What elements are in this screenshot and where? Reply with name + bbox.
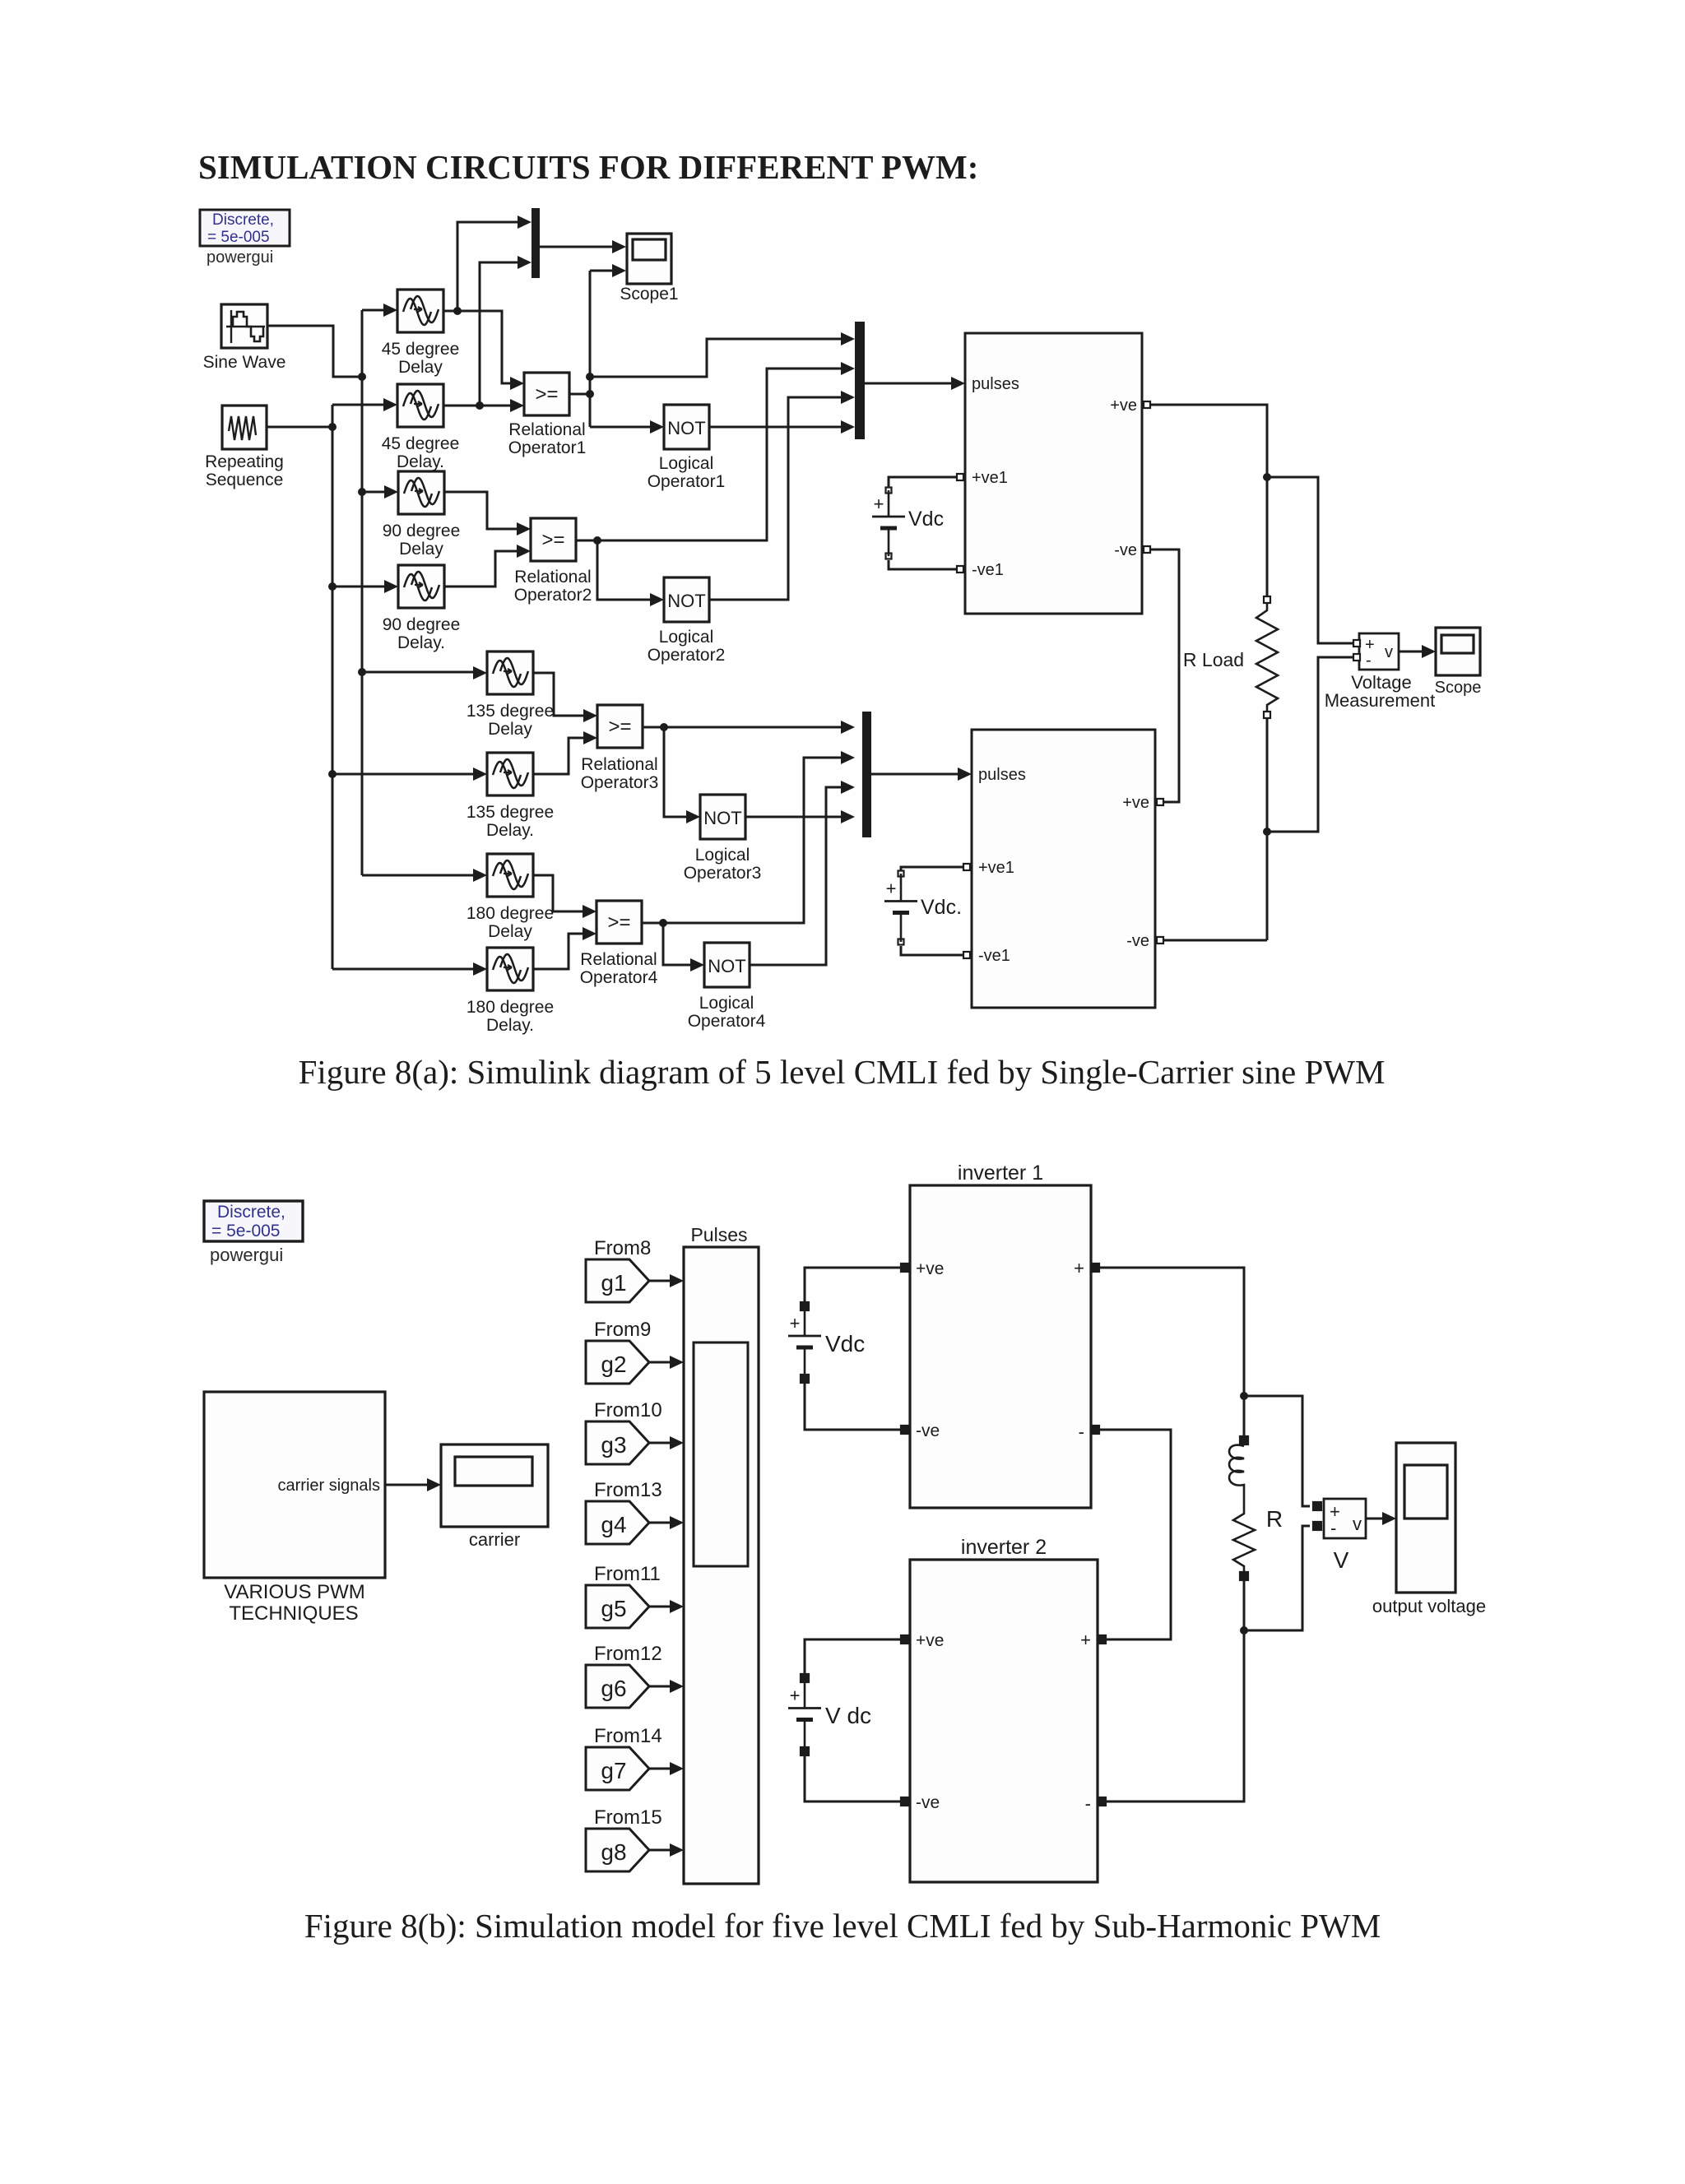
arrowhead mux M2 in3 [841, 391, 855, 404]
junction RelOp4 output [659, 919, 667, 927]
svg-text:+ve: +ve [916, 1631, 944, 1650]
svg-text:Scope: Scope [1435, 679, 1482, 697]
wire RelOp3 output to Logical Operator3 input [664, 727, 686, 817]
arrowhead NOT2 input [650, 593, 664, 606]
svg-text:Sequence: Sequence [206, 471, 284, 489]
wire 90 degree Delay. output to Relational Operator2 in2 [443, 551, 517, 587]
svg-text:Logical: Logical [659, 454, 714, 473]
svg-text:pulses: pulses [972, 375, 1019, 393]
svg-text:90 degree: 90 degree [383, 615, 461, 634]
svg-text:+ve1: +ve1 [978, 859, 1014, 877]
arrowhead g6 into Pulses [670, 1680, 684, 1693]
wire Vdc + to subsystem1 +ve1 [889, 477, 956, 487]
goto tag From15 g8 [586, 1806, 662, 1871]
scope block Scope1 [627, 234, 671, 284]
wire sine bus to 180 degree Delay input [362, 874, 473, 877]
svg-text:45 degree: 45 degree [382, 434, 460, 453]
wire Logical Operator3 output to mux M3 in4 [745, 816, 841, 818]
svg-text:Repeating: Repeating [205, 452, 284, 471]
svg-text:Relational: Relational [581, 755, 657, 774]
svg-text:-ve: -ve [916, 1793, 940, 1812]
svg-text:180 degree: 180 degree [467, 904, 554, 923]
block 45 degree Delay [397, 290, 443, 332]
dc source Vdc (fig b) [788, 1302, 865, 1383]
wire inverter1 - to inverter2 + [1100, 1430, 1171, 1639]
svg-text:Delay: Delay [488, 720, 532, 739]
block Logical Operator1 [664, 405, 709, 449]
block 135 degree Delay [487, 651, 533, 694]
svg-text:Pulses: Pulses [690, 1224, 747, 1245]
svg-text:From9: From9 [594, 1319, 651, 1341]
arrowhead into 135 degree Delay. [473, 767, 487, 781]
dc source Vdc (fig a) [872, 488, 944, 559]
wire Repeating Sequence output to carrier bus [267, 426, 330, 429]
junction sine bus at 90 degree Delay [358, 488, 366, 496]
wire subsystem1 +ve to R Load top [1151, 405, 1267, 596]
scope block Scope (fig a) [1436, 628, 1480, 675]
svg-text:Operator1: Operator1 [508, 438, 587, 457]
svg-text:Vdc.: Vdc. [921, 896, 962, 919]
svg-text:+: + [886, 879, 897, 899]
port square inverter2 - [1098, 1797, 1106, 1806]
wire Vdc. - to subsystem2 -ve1 [901, 946, 963, 955]
svg-text:Delay: Delay [488, 922, 532, 941]
svg-text:90 degree: 90 degree [383, 522, 461, 540]
svg-text:Figure 8(a): Simulink diagram: Figure 8(a): Simulink diagram of 5 level… [299, 1053, 1386, 1091]
wire Logical Operator2 output to mux M2 in3 [708, 397, 841, 600]
arrowhead into 90 degree Delay [384, 485, 398, 498]
svg-text:g1: g1 [601, 1270, 626, 1296]
svg-text:135 degree: 135 degree [467, 702, 554, 721]
svg-text:-: - [1085, 1793, 1091, 1814]
wire R Load bottom vertical [1266, 719, 1269, 940]
port square -ve (sub2) [1157, 937, 1163, 944]
svg-text:Delay.: Delay. [486, 1016, 534, 1035]
arrowhead mux M3 in2 [841, 751, 855, 764]
block Voltage Measurement [1359, 633, 1399, 670]
svg-text:Logical: Logical [659, 628, 714, 647]
svg-text:Vdc: Vdc [825, 1331, 865, 1356]
port square load top (fig b) [1240, 1436, 1248, 1444]
block 135 degree Delay. [487, 753, 533, 795]
wire 45 degree Delay. output to mux M1 in2 [480, 262, 518, 406]
junction RelOp1 output [586, 390, 594, 398]
wire 180 degree Delay output to Relational Operator4 in1 [532, 875, 583, 911]
svg-text:-: - [1079, 1421, 1084, 1442]
junction load top branch [1240, 1392, 1248, 1400]
wire sine bus vertical [361, 310, 364, 875]
svg-text:g6: g6 [601, 1676, 626, 1701]
svg-text:+: + [874, 494, 884, 514]
wire V output to output voltage scope [1366, 1518, 1384, 1520]
junction RelOp3 output [660, 723, 668, 731]
port square +ve1 (sub2) [963, 864, 970, 870]
wire Vdc + to inverter1 +ve [805, 1268, 900, 1302]
svg-text:+ve: +ve [1110, 396, 1137, 415]
inner rectangle of Pulses subsystem [694, 1342, 748, 1566]
junction sine bus at 135 degree Delay [358, 668, 366, 676]
arrowhead RelOp1 in2 [510, 399, 524, 412]
svg-text:powergui: powergui [207, 248, 273, 267]
junction load bottom branch [1240, 1626, 1248, 1635]
svg-text:From13: From13 [594, 1479, 662, 1501]
port labels inverter 2 [916, 1630, 1091, 1814]
svg-text:Relational: Relational [508, 420, 585, 439]
svg-text:+ve1: +ve1 [972, 469, 1008, 487]
wire 45 degree Delay. output to Relational Operator1 in2 [443, 405, 510, 407]
arrowhead carrier scope input [427, 1478, 441, 1491]
port square inverter2 +ve [901, 1635, 909, 1644]
svg-text:-ve1: -ve1 [972, 561, 1004, 579]
arrowhead pulses subsystem1 [951, 377, 965, 390]
port square -ve (sub1) [1144, 546, 1150, 553]
mux M1 (to Scope1) [531, 208, 540, 278]
svg-text:180 degree: 180 degree [467, 998, 554, 1017]
svg-text:Sine Wave: Sine Wave [203, 353, 286, 372]
arrowhead Scope input (fig a) [1422, 645, 1436, 658]
arrowhead RelOp2 in2 [517, 545, 531, 558]
port labels subsystem 2 [978, 766, 1149, 965]
subsystem inverter block 1 (fig a) [965, 333, 1142, 614]
wire Relational Operator2 output to mux M2 in2 [576, 369, 841, 540]
svg-text:Logical: Logical [699, 994, 754, 1013]
arrowhead g4 into Pulses [670, 1516, 684, 1529]
block 180 degree Delay. [487, 948, 533, 990]
svg-text:output voltage: output voltage [1372, 1596, 1486, 1616]
wire R Load bottom branch to Voltage Measurement - [1267, 657, 1353, 832]
arrowhead into 45 degree Delay. [383, 398, 397, 411]
port square inverter1 -ve [901, 1426, 909, 1434]
wire RelOp2 output to Logical Operator2 input [597, 540, 650, 600]
svg-text:R: R [1266, 1506, 1283, 1532]
wire carrier signals to carrier scope [385, 1484, 434, 1486]
svg-text:From14: From14 [594, 1725, 662, 1747]
wire carrier bus to 135 degree Delay. input [332, 773, 473, 776]
arrowhead RelOp4 in1 [583, 905, 596, 918]
goto tag From14 g7 [586, 1725, 662, 1790]
svg-text:>=: >= [608, 716, 631, 738]
wire mux M3 output to subsystem2 pulses [871, 773, 958, 776]
svg-text:Delay: Delay [398, 358, 443, 377]
dc source V dc (fig b) [788, 1674, 871, 1755]
goto tag From10 g3 [586, 1399, 662, 1464]
svg-text:Relational: Relational [514, 568, 591, 587]
arrowhead output voltage input [1382, 1512, 1396, 1525]
arrowhead RelOp3 in1 [583, 709, 597, 722]
arrowhead mux M3 in1 [841, 721, 855, 734]
wire Relational Operator3 output to mux M3 in1 [643, 726, 841, 729]
arrowhead g3 into Pulses [670, 1436, 684, 1449]
svg-text:Discrete,: Discrete, [212, 211, 274, 229]
wire Vdc - to subsystem1 -ve1 [889, 560, 956, 569]
wire sine bus to 90 degree Delay input [362, 491, 384, 494]
wire g7 to Pulses [649, 1768, 670, 1770]
svg-text:Figure 8(b): Simulation model: Figure 8(b): Simulation model for five l… [304, 1907, 1381, 1945]
block V measurement (fig b) [1324, 1499, 1366, 1538]
resistor R (fig b load) [1233, 1505, 1255, 1574]
arrowhead RelOp1 in1 [510, 377, 524, 390]
arrowhead g2 into Pulses [670, 1356, 684, 1369]
wire load bottom branch to V - [1244, 1526, 1310, 1630]
mux M2 (to inverter subsystem 1) [855, 322, 865, 439]
svg-text:g8: g8 [601, 1839, 626, 1865]
svg-text:+: + [1074, 1258, 1084, 1278]
wire subsystem1 -ve to subsystem2 +ve [1151, 549, 1179, 802]
svg-text:Delay: Delay [399, 540, 443, 559]
wire carrier bus to 90 degree Delay. input [332, 586, 384, 588]
svg-text:g3: g3 [601, 1432, 626, 1458]
svg-text:-ve: -ve [1114, 541, 1137, 559]
wire load bottom to inverter2 - [1105, 1578, 1244, 1801]
port square -ve1 (sub1) [957, 566, 963, 573]
svg-text:+: + [1080, 1630, 1091, 1650]
svg-text:From11: From11 [594, 1563, 661, 1585]
svg-text:Delay.: Delay. [397, 633, 445, 652]
svg-text:+: + [790, 1313, 801, 1333]
port square Vmeas + (fig a) [1353, 640, 1360, 647]
svg-text:SIMULATION CIRCUITS FOR DIFFER: SIMULATION CIRCUITS FOR DIFFERENT PWM: [198, 148, 978, 186]
wire carrier bus vertical [332, 405, 334, 969]
block 45 degree Delay. [397, 384, 443, 427]
arrowhead RelOp3 in2 [583, 731, 597, 744]
source block Repeating Sequence [222, 406, 267, 449]
svg-text:From8: From8 [594, 1237, 651, 1259]
wire g5 to Pulses [649, 1606, 670, 1608]
port labels inverter 1 [916, 1258, 1084, 1442]
block Logical Operator4 [704, 943, 750, 987]
wire 45 degree Delay output to mux M1 in1 [457, 222, 518, 311]
svg-text:Relational: Relational [580, 950, 657, 969]
svg-text:Operator4: Operator4 [580, 968, 658, 987]
junction RelOp1 to mux M2 branch [586, 373, 594, 381]
wire carrier bus to 45 degree Delay. input [332, 404, 383, 406]
svg-text:Operator2: Operator2 [514, 586, 592, 605]
svg-text:Delay.: Delay. [486, 821, 534, 840]
arrowhead mux M3 in4 [841, 810, 855, 823]
wire g1 to Pulses [649, 1280, 670, 1282]
svg-text:45 degree: 45 degree [382, 340, 460, 359]
powergui block (fig b) [204, 1201, 303, 1265]
wire 90 degree Delay output to Relational Operator2 in1 [443, 492, 517, 529]
goto tag From13 g4 [586, 1479, 662, 1544]
wire g4 to Pulses [649, 1522, 670, 1524]
junction sine bus join [358, 373, 366, 381]
arrowhead mux M1 in2 [518, 256, 531, 269]
svg-text:>=: >= [607, 911, 630, 934]
svg-text:-ve: -ve [916, 1421, 940, 1440]
port square inverter1 + [1091, 1264, 1099, 1272]
arrowhead NOT3 input [686, 810, 700, 823]
arrowhead NOT4 input [690, 958, 704, 971]
wire Voltage Measurement v to Scope [1399, 651, 1429, 653]
port square +ve1 (sub1) [957, 474, 963, 480]
port square +ve (sub2) [1157, 799, 1163, 805]
svg-text:g5: g5 [601, 1596, 626, 1621]
svg-text:NOT: NOT [703, 808, 741, 828]
mux M3 (to inverter subsystem 2) [862, 712, 871, 837]
wire sine bus to 135 degree Delay input [362, 671, 473, 674]
arrowhead into 90 degree Delay. [384, 580, 398, 593]
arrowhead g7 into Pulses [670, 1762, 684, 1775]
svg-text:+ve: +ve [1122, 794, 1149, 812]
arrowhead pulses subsystem2 [958, 767, 972, 781]
svg-text:+: + [790, 1686, 801, 1706]
svg-text:Operator3: Operator3 [581, 773, 659, 792]
junction RelOp2 output [593, 536, 601, 545]
subsystem VARIOUS PWM TECHNIQUES [204, 1392, 385, 1578]
svg-text:Operator3: Operator3 [684, 864, 762, 883]
svg-text:Logical: Logical [695, 846, 750, 865]
junction carrier bus join [328, 423, 337, 431]
wire Logical Operator1 output to mux M2 in4 [708, 426, 841, 429]
junction R Load bottom branch [1263, 828, 1271, 836]
wire RelOp4 output to Logical Operator4 input [663, 923, 690, 965]
wire g6 to Pulses [649, 1686, 670, 1688]
svg-text:g4: g4 [601, 1512, 626, 1537]
arrowhead mux M2 in1 [841, 332, 855, 345]
powergui block (fig a) [200, 210, 290, 267]
svg-text:Measurement: Measurement [1325, 690, 1436, 711]
port square inverter1 +ve [901, 1264, 909, 1272]
wire RelOp1 output vertical [589, 271, 592, 427]
junction 45 degree Delay. output [476, 401, 484, 410]
junction +ve to Vmeas branch [1263, 473, 1271, 481]
block Logical Operator2 [664, 577, 709, 622]
arrowhead g1 into Pulses [670, 1274, 684, 1287]
svg-text:From10: From10 [594, 1399, 662, 1421]
wire subsystem2 -ve to R Load bottom [1163, 939, 1267, 942]
source block Sine Wave [221, 304, 267, 348]
port square V - (fig b) [1313, 1522, 1321, 1530]
wire V dc + to inverter2 +ve [805, 1639, 900, 1674]
svg-text:inverter 1: inverter 1 [958, 1162, 1043, 1185]
port square inverter1 - [1091, 1426, 1099, 1434]
subsystem inverter 2 [910, 1560, 1098, 1882]
goto tag From12 g6 [586, 1643, 662, 1708]
wire Sine Wave output to sine bus [267, 326, 360, 377]
svg-text:NOT: NOT [667, 591, 705, 611]
inductor L (fig b load) [1229, 1445, 1244, 1505]
wire g8 to Pulses [649, 1849, 670, 1852]
svg-text:v: v [1353, 1514, 1362, 1534]
port square -ve1 (sub2) [963, 952, 970, 958]
wire Relational Operator1 output [569, 393, 590, 396]
svg-text:-: - [1330, 1518, 1336, 1538]
arrowhead into 135 degree Delay [473, 666, 487, 679]
wire 45 degree Delay output to Relational Operator1 in1 [443, 311, 510, 383]
svg-text:>=: >= [541, 529, 564, 551]
port square R Load top [1264, 596, 1270, 603]
svg-text:Delay.: Delay. [397, 452, 444, 471]
svg-text:Discrete,: Discrete, [217, 1203, 285, 1222]
svg-text:inverter 2: inverter 2 [961, 1536, 1047, 1559]
wire RelOp1 output to Scope1 in2 [590, 270, 612, 272]
wire +ve branch to Voltage Measurement + [1267, 477, 1353, 643]
svg-text:g2: g2 [601, 1352, 626, 1377]
block 90 degree Delay [398, 471, 444, 514]
wire g3 to Pulses [649, 1442, 670, 1444]
wire Vdc - to inverter1 -ve [805, 1383, 900, 1430]
wire sine bus to 45 degree Delay input [362, 309, 383, 312]
svg-text:-ve: -ve [1126, 932, 1149, 950]
arrowhead mux M1 in1 [518, 216, 531, 229]
arrowhead into 45 degree Delay [383, 304, 397, 317]
svg-text:Operator4: Operator4 [688, 1012, 766, 1031]
wire carrier bus to 180 degree Delay. input [332, 968, 473, 971]
arrowhead into 180 degree Delay [473, 869, 487, 882]
goto tag From11 g5 [586, 1563, 661, 1628]
svg-text:>=: >= [535, 383, 558, 406]
svg-text:-: - [1366, 651, 1372, 670]
svg-text:From12: From12 [594, 1643, 662, 1665]
arrowhead NOT1 input [650, 420, 664, 434]
wire 135 degree Delay output to Relational Operator3 in1 [532, 673, 583, 716]
svg-text:NOT: NOT [667, 418, 705, 438]
junction 45 degree Delay output [453, 307, 462, 315]
svg-text:pulses: pulses [978, 766, 1026, 784]
wire mux M1 output to Scope1 in1 [540, 246, 612, 248]
arrowhead mux M2 in2 [841, 362, 855, 375]
block 90 degree Delay. [398, 565, 444, 608]
wire load top branch to V + [1244, 1396, 1310, 1506]
port square inverter2 -ve [901, 1797, 909, 1806]
svg-text:R Load: R Load [1183, 649, 1244, 670]
subsystem inverter block 2 (fig a) [972, 730, 1155, 1008]
svg-text:+ve: +ve [916, 1259, 944, 1278]
arrowhead Scope1 in2 [612, 264, 626, 277]
wire RelOp1 output to Logical Operator1 input [590, 426, 650, 429]
svg-text:Operator2: Operator2 [648, 646, 726, 665]
arrowhead mux M2 in4 [841, 420, 855, 434]
arrowhead g5 into Pulses [670, 1600, 684, 1613]
wire mux M2 output to subsystem1 pulses [865, 383, 951, 385]
arrowhead into 180 degree Delay. [473, 962, 487, 976]
block Relational Operator4 [596, 901, 642, 944]
svg-text:135 degree: 135 degree [467, 803, 554, 822]
port square R Load bottom [1264, 712, 1270, 718]
svg-text:g7: g7 [601, 1758, 626, 1783]
goto tag From8 g1 [586, 1237, 651, 1302]
svg-text:Scope1: Scope1 [620, 285, 678, 304]
svg-text:powergui: powergui [210, 1245, 283, 1265]
subsystem Pulses [684, 1247, 759, 1884]
wire g2 to Pulses [649, 1361, 670, 1364]
port square load bottom (fig b) [1240, 1572, 1248, 1580]
block Logical Operator3 [700, 795, 745, 839]
port labels subsystem 1 [972, 375, 1137, 579]
port square inverter2 + [1098, 1635, 1106, 1644]
svg-text:carrier: carrier [469, 1529, 520, 1550]
dc source Vdc. (fig a) [884, 871, 962, 945]
junction carrier bus at 135 degree Delay. [328, 770, 337, 778]
svg-text:Vdc: Vdc [908, 508, 944, 531]
arrowhead RelOp4 in2 [583, 927, 596, 940]
port square +ve (sub1) [1144, 401, 1150, 408]
svg-text:From15: From15 [594, 1806, 662, 1829]
arrowhead RelOp2 in1 [517, 522, 531, 536]
block 180 degree Delay [487, 854, 533, 897]
port square V + (fig b) [1313, 1502, 1321, 1510]
svg-text:-ve1: -ve1 [978, 947, 1010, 965]
svg-text:= 5e-005: = 5e-005 [211, 1222, 281, 1240]
arrowhead Scope1 in1 [612, 240, 626, 253]
wire V dc - to inverter2 -ve [805, 1755, 900, 1801]
svg-text:carrier signals: carrier signals [278, 1477, 380, 1495]
svg-text:V: V [1334, 1547, 1349, 1573]
wire inverter1 + to load top [1100, 1268, 1244, 1439]
junction carrier bus at 90 degree Delay. [328, 582, 337, 591]
wire Vdc. + to subsystem2 +ve1 [901, 867, 963, 870]
